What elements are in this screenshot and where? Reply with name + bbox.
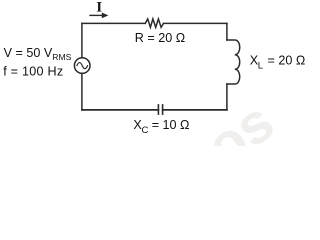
svg-text:= 10 Ω: = 10 Ω: [152, 118, 190, 132]
label XC = 10 ohm: [133, 118, 189, 136]
wire: bottom horizontal left segment: [82, 109, 158, 111]
wire: top horizontal resistor to top-right corner: [164, 22, 227, 24]
wire: right vertical inductor to bottom-right corner: [226, 84, 228, 110]
svg-text:os: os: [195, 89, 285, 146]
label XL = 20 ohm: [250, 53, 306, 71]
svg-text:C: C: [142, 125, 149, 136]
source V circle: [74, 58, 90, 74]
wire: right vertical down to inductor: [226, 23, 228, 40]
svg-text:R = 20 Ω: R = 20 Ω: [135, 31, 185, 45]
wire: top-left horizontal to resistor: [82, 22, 145, 24]
svg-text:I: I: [96, 0, 102, 16]
capacitor XC right plate: [162, 105, 164, 114]
current arrow: [89, 13, 108, 19]
svg-text:= 20 Ω: = 20 Ω: [268, 53, 306, 67]
watermark: [195, 89, 285, 178]
source sine symbol: [77, 63, 88, 69]
svg-text:L: L: [258, 60, 263, 71]
inductor XL: [227, 40, 240, 84]
svg-text:V = 50 VRMS: V = 50 VRMS: [4, 46, 72, 62]
wire: bottom horizontal right segment: [163, 109, 227, 111]
wire: left vertical bottom (source to bottom-left corner): [81, 73, 83, 110]
svg-text:f = 100 Hz: f = 100 Hz: [3, 64, 63, 78]
resistor R: [145, 19, 163, 27]
wire: left vertical top (source to top-left corner): [81, 23, 83, 58]
capacitor XC left plate: [157, 105, 159, 114]
